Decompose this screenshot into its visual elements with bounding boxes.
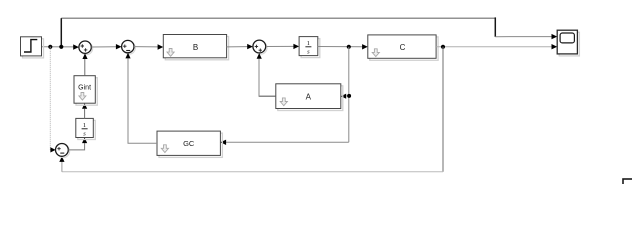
wire: branch down from Step node to Sum4 left input [50, 47, 55, 153]
wire: Integrator to block C (with branch node to A and GC) [318, 44, 368, 49]
wire: top feedforward rail from node after Step to Scope input 1 [61, 17, 557, 46]
block C [368, 35, 438, 60]
wire: C output to Scope input 2 [436, 44, 557, 49]
wire: A output left and up into Sum3 bottom [257, 53, 276, 96]
wire: GC output left and up into Sum2 bottom [125, 53, 157, 143]
svg-text:A: A [306, 92, 312, 101]
node: junction at A input [347, 94, 351, 98]
step source block [21, 37, 44, 58]
node: junction to top rail [59, 45, 63, 49]
wire: Sum4 output up into 1/z [68, 138, 87, 150]
wire: Sum2 to block B [134, 44, 163, 49]
wire: Sum3 to Integrator 1/s [266, 44, 299, 49]
svg-text:Gint: Gint [78, 84, 91, 91]
integrator block 1/s [299, 37, 320, 58]
wire: Sum1 to Sum2 [91, 44, 121, 49]
unit delay block 1/z [76, 118, 96, 139]
wire: Step output to Sum1 [42, 44, 79, 49]
node: junction at C output [441, 45, 445, 49]
partial block at bottom-right corner [623, 179, 632, 189]
wire: B to Sum3 [227, 44, 253, 49]
svg-text:1: 1 [83, 122, 86, 129]
wire: output feedback down from C node to bottom rail and Sum4 [59, 47, 443, 172]
wire: state feedback from branch node down to A and GC [220, 47, 348, 145]
summing junction Sum2 (+ -) [122, 40, 136, 54]
svg-text:1: 1 [307, 40, 310, 47]
node: junction after Step (branch down to Sum4) [48, 45, 52, 49]
block B [163, 35, 228, 60]
svg-text:B: B [193, 43, 198, 52]
summing junction Sum4 (+ -) [56, 144, 70, 158]
svg-text:C: C [400, 43, 406, 52]
summing junction Sum1 (+ +) [79, 41, 93, 55]
block GC [157, 131, 222, 157]
wire: Gint up into Sum1 bottom [82, 53, 87, 75]
svg-text:GC: GC [183, 139, 195, 148]
summing junction Sum3 (+ +) [253, 40, 267, 54]
node: state branch junction [347, 45, 351, 49]
wire: 1/z up into Gint [82, 103, 87, 118]
scope block [557, 30, 579, 56]
block A [276, 84, 343, 111]
block Gint [74, 76, 97, 106]
